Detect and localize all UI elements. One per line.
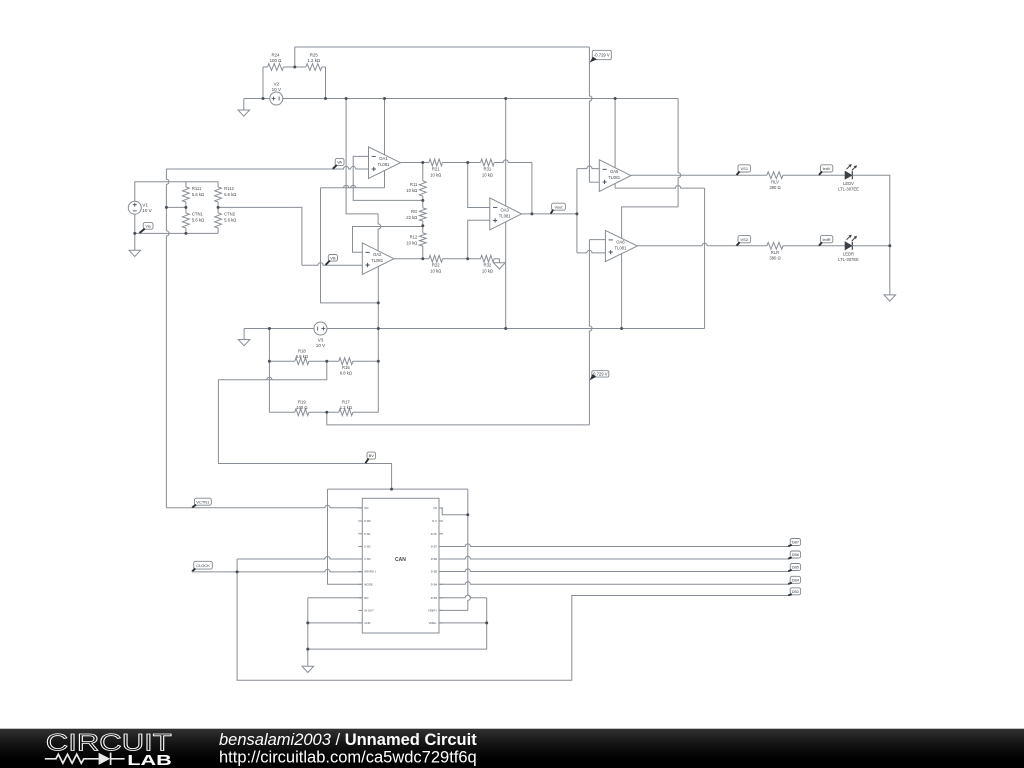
resistor R19 [269,399,338,415]
svg-text:R32: R32 [484,263,492,268]
flag VS2 [737,236,751,246]
voltage label -0.729 V [590,50,612,62]
svg-text:D B3: D B3 [431,596,438,600]
svg-text:VS1: VS1 [741,166,749,171]
wire: VA bus down to VCTN1 [166,169,190,508]
svg-text:http://circuitlab.com/ca5wdc72: http://circuitlab.com/ca5wdc729tf6q [219,749,477,767]
resistor R111 [183,182,205,208]
svg-text:R22: R22 [432,263,440,268]
svg-text:TL081: TL081 [499,213,512,218]
svg-text:IN OUT: IN OUT [364,609,374,613]
resistor RG [406,200,426,225]
resistor R18 [269,348,338,364]
wire: bridge right tap to OA2+ [218,207,362,265]
resistor R31 [468,159,532,177]
wire: VD pin link [439,508,468,515]
svg-text:CTN2: CTN2 [224,212,236,217]
resistor R24 [263,53,295,71]
svg-text:VD: VD [433,506,437,510]
ground (ADC) [302,666,314,672]
flag ledR [819,236,833,246]
resistor R11 [406,163,426,201]
svg-text:R111: R111 [192,186,202,191]
IC CAN (ADC) [362,498,439,633]
wire: R31 feedback drop [531,163,533,214]
svg-text:RLR: RLR [771,250,779,255]
svg-text:LAB: LAB [127,753,172,768]
svg-text:V3: V3 [318,338,324,343]
op-amp OA1 [369,147,401,179]
wire: DB7 row [439,544,789,547]
svg-text:10 kΩ: 10 kΩ [430,172,441,177]
svg-text:LTL-307EE: LTL-307EE [838,186,859,191]
svg-text:LTL-307EE: LTL-307EE [838,257,859,262]
svg-text:DB7: DB7 [792,541,799,545]
wire: to OA3 non-inverting input [468,220,490,258]
wire: OA2 V- supply [377,267,379,413]
ground (R32) [494,259,506,269]
voltage source V1 [128,201,152,214]
op-amp OA2 [362,243,394,275]
svg-text:R12: R12 [410,235,418,240]
footer: CircuitLab banner [0,729,1024,768]
wire: OA5 V- supply route [615,183,705,328]
svg-text:VREF-: VREF- [429,621,437,625]
svg-text:CLOCK: CLOCK [196,563,210,568]
svg-text:GND: GND [364,621,370,625]
LED LEDR [838,235,859,262]
svg-text:MODE: MODE [364,583,373,587]
svg-text:10 kΩ: 10 kΩ [482,172,493,177]
svg-text:VREF+: VREF+ [428,609,437,613]
svg-text:OA5: OA5 [610,169,619,174]
wire: OA6 output [637,243,767,246]
voltage source V3 [314,322,327,348]
svg-text:RD: RD [364,596,368,600]
wire [852,245,890,247]
svg-text:OA3: OA3 [501,207,510,212]
wire: OA1 output node [400,162,429,164]
svg-text:OA1: OA1 [379,156,388,161]
svg-text:D B0: D B0 [364,519,371,523]
wire: OA5 output [631,174,767,176]
svg-text:D B1: D B1 [364,532,371,536]
svg-text:100 Ω: 100 Ω [270,58,283,63]
svg-text:10 kΩ: 10 kΩ [430,269,441,274]
flag CLOCK [192,561,212,571]
svg-text:BV: BV [369,453,375,458]
svg-text:R11: R11 [410,182,418,187]
IC pins [358,506,443,625]
flag VCTN1 [192,498,211,507]
svg-text:TL081: TL081 [378,162,391,167]
svg-text:LEDR: LEDR [843,252,854,257]
wire: BV net (divider tap to ADC) [218,361,391,489]
svg-text:OA2: OA2 [373,252,382,257]
wire: OA6 V+ supply route [622,99,681,239]
svg-text:5.6 kΩ: 5.6 kΩ [192,192,204,197]
flag DB7 [788,539,800,547]
svg-text:10 V: 10 V [272,87,282,92]
svg-text:V2: V2 [273,82,279,87]
wire: OA6 V- supply [621,254,623,329]
svg-text:D B6: D B6 [431,557,438,561]
svg-text:R21: R21 [432,166,440,171]
op-amp OA3 [490,198,522,230]
svg-text:390 Ω: 390 Ω [769,256,780,261]
wire: to OA1 non-inverting input [166,166,368,169]
flag BV [365,452,375,463]
svg-text:V1: V1 [142,203,148,208]
wire: GND row [308,622,363,624]
resistor R17 [339,399,379,415]
svg-text:R25: R25 [310,53,319,58]
svg-text:R17: R17 [342,399,350,404]
wire: Vout to OA6+ [577,250,606,253]
svg-text:TL081: TL081 [614,246,627,251]
wire [134,214,136,233]
svg-text:10 kΩ: 10 kΩ [406,188,417,193]
svg-text:OA6: OA6 [616,240,625,245]
svg-text:WR/RD 1: WR/RD 1 [364,570,376,574]
svg-text:VCTN1: VCTN1 [196,499,210,504]
ground (rail left) [238,329,250,346]
svg-text:DB4: DB4 [792,578,799,582]
resistor RLV [767,172,845,190]
wire: node -0.729V to OA5+ [295,47,600,182]
wire [852,175,890,295]
ground (below V1) [129,233,141,256]
flag VA [333,158,344,168]
svg-text:R19: R19 [298,399,306,404]
svg-text:TL081: TL081 [371,258,384,263]
flag DB4 [788,576,800,584]
wire: CLOCK branch to CLK [237,556,362,572]
svg-text:VB: VB [330,255,336,260]
wire: divider feed [268,329,270,413]
flag Vout [551,203,566,213]
wire: ADC ground leg [307,598,309,667]
svg-text:C B3: C B3 [364,557,371,561]
svg-text:Vout: Vout [554,204,563,209]
svg-text:DB6: DB6 [792,553,799,557]
svg-text:TL081: TL081 [608,175,621,180]
wire [325,67,327,99]
svg-text:1.2 kΩ: 1.2 kΩ [340,405,352,410]
wire: +10V rail [244,98,678,100]
svg-text:-0.729 V: -0.729 V [594,53,610,58]
svg-text:R18: R18 [298,348,306,353]
svg-text:Via: Via [146,225,151,229]
flag ledV [819,165,833,175]
svg-text:CTN1: CTN1 [192,212,204,217]
svg-text:5.6 kΩ: 5.6 kΩ [192,218,204,223]
op-amp OA5 [599,160,631,192]
flag DB6 [788,551,800,559]
LED LEDV [838,164,859,191]
wire: ADC outer loop top [328,488,468,490]
svg-text:DB5: DB5 [792,566,799,570]
svg-text:D B7: D B7 [431,545,438,549]
wire: RD row [308,597,363,599]
svg-text:D B4: D B4 [431,583,438,587]
wire: VREF- row [439,622,487,624]
svg-text:ledR: ledR [822,237,830,242]
svg-text:R16: R16 [342,365,350,370]
wire: bridge left tap [166,206,186,208]
ground (LED return) [884,295,896,301]
wire: -10V rail [244,328,704,330]
wire: 0.729V node to OA6- [327,240,606,425]
svg-text:LEDV: LEDV [843,181,854,186]
svg-text:6.8 kΩ: 6.8 kΩ [296,354,308,359]
svg-text:10 kΩ: 10 kΩ [482,269,493,274]
resistor R22 [429,255,468,273]
svg-text:D B2: D B2 [364,545,371,549]
op-amp OA6 [605,230,637,261]
wire: Vout to OA5- [577,166,599,169]
wire: DB4 row [439,582,789,585]
resistor R21 [429,159,468,177]
wire: INTR to ground loop [308,595,487,649]
svg-text:1.2 kΩ: 1.2 kΩ [307,58,321,63]
wire: OA5 V+ supply [614,99,616,168]
flag VS1 [737,165,751,175]
wire: OA2 V+ supply route [346,99,381,251]
wire: VCTN1 to ADC [190,505,362,508]
resistor RLR [767,242,845,260]
svg-text:R24: R24 [271,53,280,58]
svg-text:100 Ω: 100 Ω [296,405,307,410]
svg-text:390 Ω: 390 Ω [769,185,780,190]
resistor R25 [295,53,326,71]
svg-text:0.729 V: 0.729 V [593,371,608,376]
thermistor CTN1 [183,207,205,233]
wire: CLOCK to WR [192,569,362,572]
svg-text:bensalami2003 / Unnamed Circui: bensalami2003 / Unnamed Circuit [219,731,477,749]
svg-text:R31: R31 [484,166,492,171]
svg-text:VS2: VS2 [741,237,749,242]
svg-text:10 V: 10 V [316,343,326,348]
svg-text:D B5: D B5 [431,570,438,574]
flag VB [326,255,338,265]
resistor R112 [215,182,237,208]
wire: OA3 V+ supply [505,99,507,206]
wire: OA1 V- supply route [321,171,385,303]
wire [135,232,218,234]
svg-text:10 V: 10 V [142,208,152,213]
resistor R16 [339,358,379,376]
wire: ADC outer loop right to VREF+ [439,489,470,610]
svg-text:5.6 kΩ: 5.6 kΩ [224,192,236,197]
resistor R32 [468,255,500,273]
svg-text:22 kΩ: 22 kΩ [406,215,417,220]
voltage source V2 [270,82,283,105]
flag DB3 [788,588,800,596]
flag DB5 [788,564,800,572]
resistor R12 [406,226,426,259]
wire: CLOCK to DB3 loop [237,572,788,680]
svg-text:ledV: ledV [823,166,831,171]
svg-text:RG: RG [411,209,417,214]
wire: OA3 output Vout [522,213,577,215]
wire: Vout node vertical [576,169,578,253]
flag Via [140,223,154,233]
svg-text:6.8 kΩ: 6.8 kΩ [340,370,352,375]
thermistor CTN2 [215,207,237,233]
wire: OA3 V- supply [505,222,507,329]
wire [262,67,264,99]
svg-text:IN1: IN1 [364,506,369,510]
svg-text:RLV: RLV [771,179,779,184]
wire: ADC outer loop left to MODE [328,489,363,584]
voltage label 0.729 V [590,371,609,381]
wire [135,182,218,201]
svg-text:R112: R112 [224,186,234,191]
wire: OA2 output node [394,258,429,260]
wire: DB5 row [439,569,789,572]
wire: to OA3 inverting input [468,163,490,208]
svg-text:10 kΩ: 10 kΩ [406,241,417,246]
wire: OA2 feedback [353,227,423,253]
svg-text:D PL: D PL [431,532,438,536]
wire: OA1 feedback [353,156,423,200]
ground (top-left, V2 negative) [238,99,250,117]
svg-text:VA: VA [337,160,342,165]
wire: DB6 row [439,556,789,559]
svg-text:5.6 kΩ: 5.6 kΩ [224,218,236,223]
wire: OA1 V+ supply [384,99,386,155]
svg-text:DB3: DB3 [792,590,799,594]
svg-text:CAN: CAN [395,557,406,563]
svg-text:N C: N C [432,519,437,523]
